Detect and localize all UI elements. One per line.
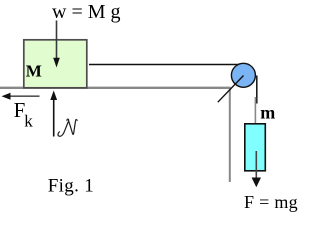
svg-text:w = M g: w = M g <box>52 1 121 23</box>
svg-text:m: m <box>260 103 275 123</box>
svg-text:Fig. 1: Fig. 1 <box>48 176 94 197</box>
svg-text:k: k <box>24 111 33 130</box>
svg-text:F = mg: F = mg <box>244 192 298 212</box>
svg-text:M: M <box>26 62 42 81</box>
